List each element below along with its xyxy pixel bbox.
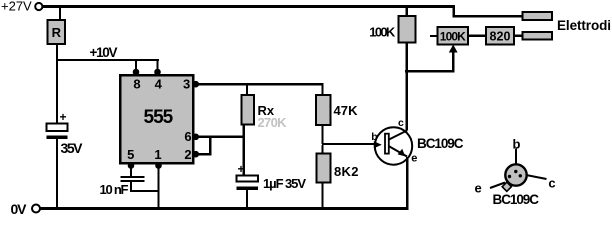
- svg-text:0V: 0V: [11, 201, 28, 217]
- wire pin4 lead: [157, 60, 159, 75]
- svg-text:e: e: [411, 153, 417, 165]
- svg-text:8: 8: [133, 77, 140, 92]
- pinout diagram BC109C: [490, 149, 547, 192]
- wire Rx bottom to 1uF: [243, 125, 246, 176]
- svg-text:BC109C: BC109C: [493, 192, 540, 207]
- wire base: [322, 143, 375, 145]
- wire pin3 output: [193, 83, 324, 86]
- svg-text:4: 4: [155, 77, 163, 92]
- svg-text:b: b: [513, 136, 521, 151]
- junction pin8: [133, 69, 140, 76]
- wire pin2 to pin6 vertical: [209, 136, 212, 155]
- svg-text:270K: 270K: [258, 115, 288, 130]
- wire 8K2 top lead: [322, 145, 324, 154]
- wire 35V cap bottom lead: [56, 139, 58, 208]
- wire 47K top turn: [322, 85, 324, 95]
- resistor 8K2: [317, 154, 359, 183]
- wire 820 to electrode: [514, 35, 523, 38]
- svg-text:+27V: +27V: [1, 0, 32, 13]
- potentiometer 100K: [438, 27, 469, 45]
- svg-text:+10V: +10V: [90, 45, 118, 60]
- svg-text:555: 555: [144, 107, 174, 128]
- svg-text:35V: 35V: [61, 140, 84, 156]
- transistor Q1 BC109C: [374, 127, 412, 164]
- svg-text:6: 6: [184, 129, 191, 144]
- svg-text:BC109C: BC109C: [417, 136, 464, 151]
- svg-text:R: R: [52, 25, 62, 40]
- terminal +27V: [35, 3, 42, 10]
- svg-text:b: b: [371, 131, 377, 143]
- svg-text:10 nF: 10 nF: [100, 182, 129, 197]
- svg-text:100K: 100K: [369, 24, 396, 39]
- wire corner to electrode: [453, 5, 524, 18]
- wire 47K bottom lead: [322, 125, 324, 144]
- junction pin5: [128, 162, 135, 169]
- wire R bottom lead: [56, 44, 58, 60]
- electrode top bar: [523, 12, 553, 20]
- resistor Rx: [242, 95, 275, 125]
- svg-text:5: 5: [127, 147, 134, 162]
- electrode bottom bar: [523, 32, 553, 40]
- junction pin4: [154, 69, 161, 76]
- wire 1uF bottom lead: [246, 190, 248, 208]
- resistor 47K: [316, 95, 358, 125]
- capacitor 10nF: [100, 176, 145, 197]
- wire R top lead: [59, 7, 61, 20]
- wire pot to 820: [468, 35, 486, 38]
- junction pin3: [193, 81, 200, 88]
- svg-text:3: 3: [183, 77, 190, 92]
- wire pot left stub: [430, 35, 438, 37]
- resistor 820: [486, 27, 514, 45]
- wire 100K resistor top lead: [406, 7, 409, 16]
- wire emitter vertical: [406, 157, 408, 208]
- svg-text:e: e: [475, 181, 482, 196]
- svg-text:8K2: 8K2: [334, 164, 359, 179]
- wire pin8 lead: [135, 60, 137, 75]
- svg-text:c: c: [548, 175, 555, 190]
- svg-text:100K: 100K: [440, 30, 466, 44]
- wire 10nF bottom jog: [130, 182, 159, 192]
- wire pin6: [193, 136, 245, 139]
- wire collector vertical: [406, 43, 409, 131]
- junction pin1: [155, 162, 162, 169]
- wire wiper vertical with arrow: [449, 45, 458, 73]
- op-amp U1 555 timer: [120, 75, 193, 163]
- wire top rail +27V: [42, 5, 455, 8]
- svg-text:1µF 35V: 1µF 35V: [263, 176, 306, 191]
- wire wiper horizontal: [405, 70, 455, 73]
- wire +10V rail: [57, 59, 159, 61]
- capacitor 35V: [47, 110, 84, 156]
- svg-text:820: 820: [490, 30, 511, 44]
- wire pin2: [193, 153, 212, 156]
- wire 8K2 bottom lead: [322, 183, 324, 208]
- resistor 100K vertical: [369, 16, 415, 43]
- svg-text:2: 2: [184, 147, 191, 162]
- junction pin6: [193, 134, 200, 141]
- svg-text:+: +: [60, 110, 67, 124]
- svg-text:c: c: [398, 117, 404, 129]
- svg-text:47K: 47K: [334, 103, 359, 118]
- resistor R: [48, 20, 66, 44]
- svg-text:+: +: [238, 162, 245, 176]
- wire left vertical: [56, 60, 58, 123]
- svg-text:1: 1: [154, 147, 161, 162]
- capacitor 1uF: [237, 162, 307, 191]
- wire pin5 lead: [130, 163, 132, 176]
- wire bottom rail 0V: [40, 207, 408, 210]
- svg-text:Elettrodi: Elettrodi: [557, 18, 611, 33]
- terminal 0V: [32, 205, 40, 213]
- wire pin1 lead: [158, 163, 160, 207]
- junction pin2: [193, 151, 200, 158]
- wire Rx top lead: [246, 85, 248, 95]
